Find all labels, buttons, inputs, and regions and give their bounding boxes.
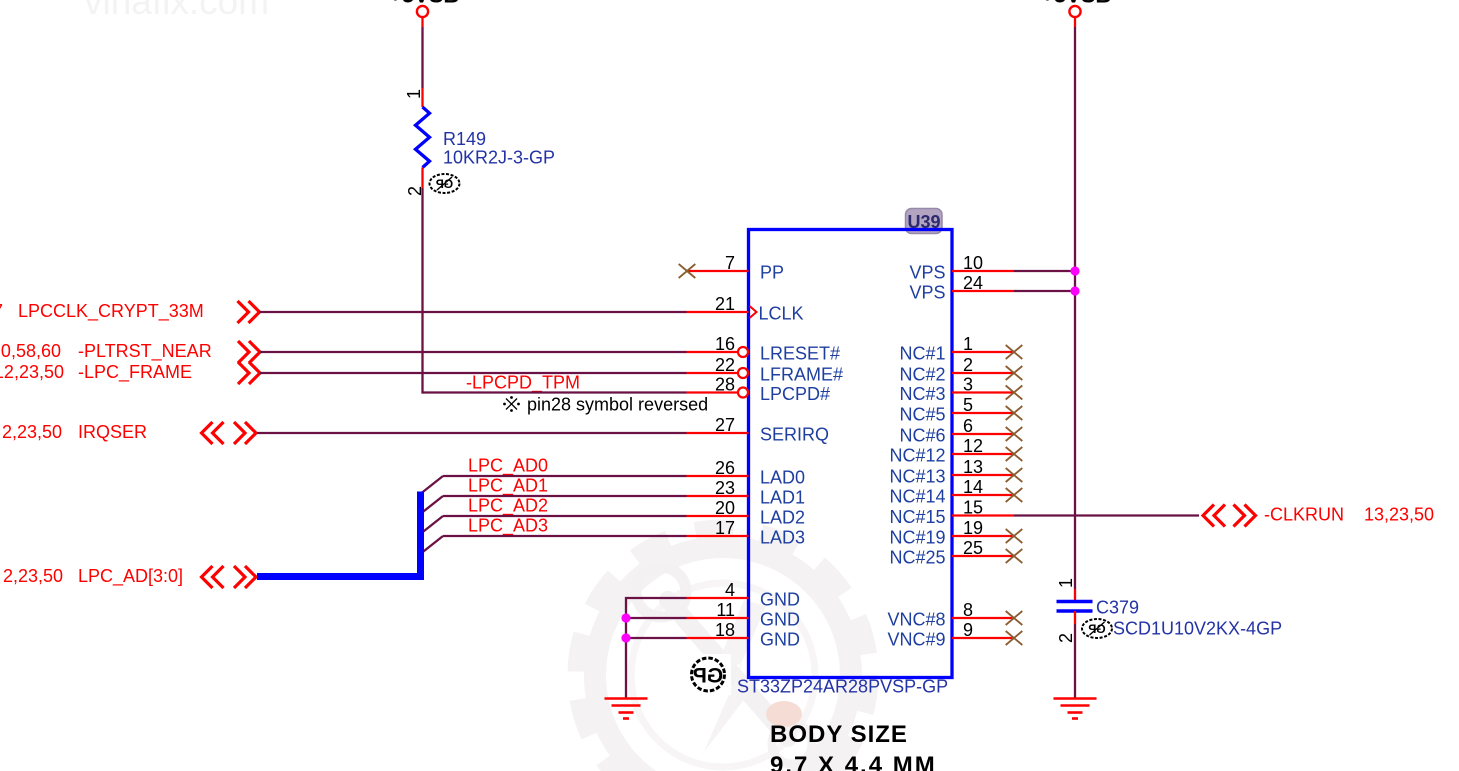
svg-text:NC#14: NC#14 bbox=[889, 486, 945, 506]
net IRQSER label bbox=[2, 422, 147, 442]
svg-text:27: 27 bbox=[715, 415, 735, 435]
bus tap LPC_AD3 bbox=[422, 536, 444, 553]
svg-text:5: 5 bbox=[963, 395, 973, 415]
svg-text:13: 13 bbox=[963, 457, 983, 477]
U39 pin 28 LPCPD# bbox=[687, 375, 831, 404]
ground symbol (right) bbox=[1054, 699, 1097, 719]
svg-text:30,58,60: 30,58,60 bbox=[0, 341, 61, 361]
svg-text:GND: GND bbox=[760, 609, 800, 629]
wire R149 pin2 down to LPCPD# net bbox=[423, 188, 424, 393]
bus tap LPC_AD0 bbox=[422, 476, 444, 493]
svg-text:NC#3: NC#3 bbox=[899, 384, 945, 404]
svg-text:12,23,50: 12,23,50 bbox=[0, 362, 64, 382]
wire +3VSB to R149 pin1 bbox=[421, 27, 423, 88]
U39 pin 23 LAD1 bbox=[687, 478, 806, 507]
svg-text:GP: GP bbox=[693, 665, 723, 688]
svg-text:7: 7 bbox=[725, 253, 735, 273]
svg-text:vinafix.com: vinafix.com bbox=[84, 0, 269, 22]
U39 pin 27 SERIRQ bbox=[687, 415, 830, 444]
resistor R149 pin 1 bbox=[421, 88, 423, 107]
svg-text:IRQSER: IRQSER bbox=[78, 422, 147, 442]
ground symbol (left) bbox=[605, 699, 648, 719]
svg-text:LPC_AD3: LPC_AD3 bbox=[468, 516, 548, 537]
U39 pin 3 NC#3 bbox=[899, 375, 1022, 404]
svg-text:LAD2: LAD2 bbox=[760, 507, 805, 527]
svg-text:1: 1 bbox=[1056, 578, 1076, 588]
U39 pin 20 LAD2 bbox=[687, 498, 806, 527]
svg-text:2,23,50: 2,23,50 bbox=[2, 422, 62, 442]
svg-text:NC#1: NC#1 bbox=[899, 343, 945, 363]
svg-text:9: 9 bbox=[963, 620, 973, 640]
svg-text:VNC#9: VNC#9 bbox=[887, 629, 945, 649]
svg-text:ST33ZP24AR28PVSP-GP: ST33ZP24AR28PVSP-GP bbox=[737, 677, 948, 697]
svg-text:24: 24 bbox=[963, 273, 983, 293]
U39 pin 14 NC#14 bbox=[889, 477, 1022, 506]
svg-text:14: 14 bbox=[963, 477, 983, 497]
GP stamp at R149 bbox=[430, 174, 460, 193]
wire -CLKRUN from pin15 bbox=[1014, 514, 1199, 516]
U39 pin 7 PP bbox=[679, 253, 784, 282]
off-page connector -PLTRST_NEAR bbox=[238, 341, 260, 363]
svg-text:VPS: VPS bbox=[909, 282, 945, 302]
resistor R149 bbox=[416, 107, 430, 168]
U39 pin 5 NC#5 bbox=[899, 395, 1022, 424]
svg-text:6: 6 bbox=[963, 416, 973, 436]
svg-text:NC#5: NC#5 bbox=[899, 404, 945, 424]
svg-text:2: 2 bbox=[963, 355, 973, 375]
off-page connector IRQSER (bidirectional) bbox=[202, 422, 257, 444]
op-amp U39 chip body bbox=[749, 230, 953, 678]
svg-text:7: 7 bbox=[0, 301, 3, 321]
U39 pin 13 NC#13 bbox=[889, 457, 1022, 486]
svg-text:2,23,50: 2,23,50 bbox=[3, 566, 63, 586]
capacitor C379 pin 1 bbox=[1074, 589, 1076, 600]
off-page connector LPCCLK_CRYPT_33M bbox=[238, 301, 260, 323]
svg-text:NC#15: NC#15 bbox=[889, 507, 945, 527]
svg-text:C379: C379 bbox=[1096, 598, 1139, 618]
wire GND pin 11 bbox=[626, 617, 687, 619]
wire LPC_AD2 bbox=[443, 515, 687, 517]
svg-text:SCD1U10V2KX-4GP: SCD1U10V2KX-4GP bbox=[1113, 619, 1282, 639]
svg-text:21: 21 bbox=[715, 294, 735, 314]
svg-text:17: 17 bbox=[715, 518, 735, 538]
bus tap LPC_AD1 bbox=[422, 496, 444, 513]
note pin28 symbol reversed bbox=[503, 395, 708, 415]
wire -LPC_FRAME bbox=[260, 372, 687, 374]
svg-text:23: 23 bbox=[715, 478, 735, 498]
net LPCCLK_CRYPT_33M label bbox=[0, 301, 204, 322]
svg-text:NC#13: NC#13 bbox=[889, 466, 945, 486]
wire LPCCLK_CRYPT_33M bbox=[260, 311, 687, 313]
U39 pin 16 LRESET# bbox=[687, 334, 841, 363]
U39 pin 17 LAD3 bbox=[687, 518, 806, 547]
bus tap LPC_AD2 bbox=[422, 516, 444, 533]
off-page connector LPC_AD[3:0] (bidirectional) bbox=[202, 566, 257, 588]
U39 pin 9 VNC#9 bbox=[887, 620, 1022, 649]
svg-text:BODY SIZE: BODY SIZE bbox=[770, 721, 908, 748]
bus LPC_AD[3:0] bbox=[257, 492, 421, 577]
svg-text:15: 15 bbox=[963, 498, 983, 518]
junction bbox=[621, 613, 630, 622]
U39 refdes box bbox=[906, 209, 943, 234]
svg-text:VPS: VPS bbox=[909, 262, 945, 282]
svg-text:GND: GND bbox=[760, 589, 800, 609]
net -LPC_FRAME label bbox=[0, 362, 192, 383]
U39 pin 2 NC#2 bbox=[899, 355, 1022, 384]
power symbol +3VSB (right, clipped label) bbox=[1041, 0, 1111, 27]
svg-text:LPC_AD2: LPC_AD2 bbox=[468, 496, 548, 517]
U39 pin 15 NC#15 bbox=[889, 498, 1014, 527]
svg-text:LRESET#: LRESET# bbox=[760, 343, 840, 363]
svg-text:LAD3: LAD3 bbox=[760, 527, 805, 547]
U39 pin 4 GND bbox=[687, 580, 801, 609]
U39 pin 11 GND bbox=[687, 600, 801, 629]
svg-text:LPC_AD0: LPC_AD0 bbox=[468, 456, 548, 477]
wire LPC_AD1 bbox=[443, 495, 687, 497]
U39 pin 26 LAD0 bbox=[687, 458, 806, 487]
svg-text:10: 10 bbox=[963, 253, 983, 273]
net -CLKRUN label bbox=[1264, 505, 1434, 525]
svg-text:-LPC_FRAME: -LPC_FRAME bbox=[78, 362, 192, 383]
U39 pin 21 LCLK bbox=[687, 294, 804, 323]
svg-text:26: 26 bbox=[715, 458, 735, 478]
svg-text:LPC_AD[3:0]: LPC_AD[3:0] bbox=[78, 566, 183, 587]
junction bbox=[621, 633, 630, 642]
note BODY SIZE bbox=[770, 721, 937, 771]
U39 pin 18 GND bbox=[687, 620, 801, 649]
svg-text:LCLK: LCLK bbox=[759, 303, 804, 323]
wire GND pin 18 bbox=[626, 637, 687, 639]
wire IRQSER bbox=[257, 432, 687, 434]
svg-text:19: 19 bbox=[963, 518, 983, 538]
svg-text:LPCPD#: LPCPD# bbox=[760, 384, 830, 404]
svg-text:NC#2: NC#2 bbox=[899, 364, 945, 384]
svg-text:12: 12 bbox=[963, 436, 983, 456]
U39 pin 19 NC#19 bbox=[889, 518, 1022, 547]
svg-text:25: 25 bbox=[963, 538, 983, 558]
svg-text:10KR2J-3-GP: 10KR2J-3-GP bbox=[443, 148, 555, 168]
U39 pin 12 NC#12 bbox=[889, 436, 1022, 465]
net -PLTRST_NEAR label bbox=[0, 341, 212, 362]
U39 pin 10 VPS bbox=[909, 253, 1014, 282]
svg-text:SERIRQ: SERIRQ bbox=[760, 424, 829, 444]
svg-text:LPC_AD1: LPC_AD1 bbox=[468, 476, 548, 497]
net LPC_AD[3:0] label bbox=[3, 566, 183, 587]
svg-text:LPCCLK_CRYPT_33M: LPCCLK_CRYPT_33M bbox=[18, 301, 204, 322]
svg-text:8: 8 bbox=[963, 600, 973, 620]
svg-text:3: 3 bbox=[963, 375, 973, 395]
wire GND pins to ground bbox=[626, 598, 687, 699]
svg-text:2: 2 bbox=[1056, 633, 1076, 643]
svg-text:NC#12: NC#12 bbox=[889, 445, 945, 465]
svg-text:NC#19: NC#19 bbox=[889, 527, 945, 547]
svg-text:11: 11 bbox=[716, 600, 735, 620]
U39 pin 8 VNC#8 bbox=[887, 600, 1022, 629]
svg-text:4: 4 bbox=[725, 580, 735, 600]
U39 pin 22 LFRAME# bbox=[687, 355, 844, 384]
wire VPS pin10 to +3VSB bbox=[1014, 270, 1075, 272]
wire -LPCPD_TPM to pin 28 bbox=[423, 391, 687, 393]
GP stamp at C379 bbox=[1082, 619, 1112, 638]
U39 pin 1 NC#1 bbox=[899, 334, 1022, 363]
wire +3VSB vertical to C379 bbox=[1074, 27, 1076, 589]
off-page connector -CLKRUN (bidirectional) bbox=[1203, 505, 1256, 527]
capacitor C379 bbox=[1057, 598, 1140, 618]
watermark gear logo bbox=[577, 529, 869, 771]
svg-text:-LPCPD_TPM: -LPCPD_TPM bbox=[466, 373, 580, 394]
wire VPS pin24 to +3VSB bbox=[1014, 290, 1075, 292]
svg-text:1: 1 bbox=[963, 334, 973, 354]
wire LPC_AD3 bbox=[443, 535, 687, 537]
U39 pin 24 VPS bbox=[909, 273, 1014, 302]
off-page connector -LPC_FRAME bbox=[238, 362, 260, 384]
svg-text:NC#25: NC#25 bbox=[889, 547, 945, 567]
svg-text:NC#6: NC#6 bbox=[899, 425, 945, 445]
svg-text:9.7 X 4.4 MM: 9.7 X 4.4 MM bbox=[770, 752, 937, 771]
svg-text:20: 20 bbox=[715, 498, 735, 518]
svg-text:16: 16 bbox=[715, 334, 735, 354]
svg-text:-CLKRUN: -CLKRUN bbox=[1264, 505, 1344, 525]
svg-text:1: 1 bbox=[404, 89, 424, 99]
svg-text:pin28 symbol reversed: pin28 symbol reversed bbox=[527, 395, 708, 415]
svg-text:VNC#8: VNC#8 bbox=[887, 609, 945, 629]
svg-text:13,23,50: 13,23,50 bbox=[1364, 505, 1434, 525]
capacitor C379 pin 2 bbox=[1074, 611, 1076, 624]
GP stamp near chip bbox=[682, 654, 731, 695]
svg-text:-PLTRST_NEAR: -PLTRST_NEAR bbox=[78, 341, 212, 362]
svg-text:PP: PP bbox=[760, 262, 784, 282]
wire -PLTRST_NEAR bbox=[260, 351, 687, 353]
svg-text:LFRAME#: LFRAME# bbox=[760, 364, 843, 384]
wire C379 to ground bbox=[1074, 624, 1076, 699]
power symbol +3VSB (left, clipped label) bbox=[389, 0, 459, 27]
wire LPC_AD0 bbox=[443, 475, 687, 477]
U39 pin 6 NC#6 bbox=[899, 416, 1022, 445]
svg-text:GND: GND bbox=[760, 629, 800, 649]
svg-text:R149: R149 bbox=[443, 129, 486, 149]
svg-text:18: 18 bbox=[715, 620, 735, 640]
svg-text:22: 22 bbox=[715, 355, 735, 375]
resistor R149 pin 2 bbox=[421, 168, 423, 189]
svg-text:LAD1: LAD1 bbox=[760, 487, 805, 507]
U39 pin 25 NC#25 bbox=[889, 538, 1022, 567]
svg-text:28: 28 bbox=[715, 375, 735, 395]
svg-text:LAD0: LAD0 bbox=[760, 467, 805, 487]
